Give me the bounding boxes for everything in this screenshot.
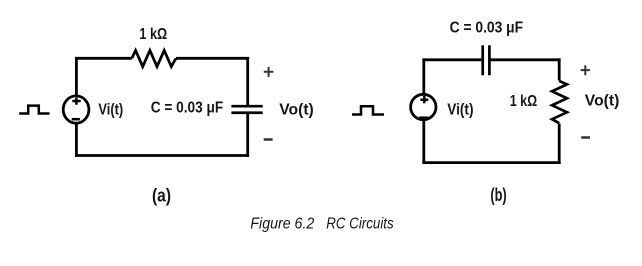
label C = 0.03 µF (b) <box>450 19 524 36</box>
wire (b) left branch upper: source to top rail <box>422 58 425 94</box>
output minus sign (a) <box>264 138 273 141</box>
svg-text:(b): (b) <box>490 185 506 205</box>
wire (b) right branch lower: resistor to bottom rail <box>558 124 561 165</box>
svg-text:Vo(t): Vo(t) <box>279 102 314 119</box>
output plus sign (a) <box>264 67 274 77</box>
label Vi(t) (b) <box>447 102 473 119</box>
label Vo(t) (a) <box>279 102 314 119</box>
svg-text:Vo(t): Vo(t) <box>585 93 620 110</box>
output minus sign (b) <box>581 136 590 139</box>
resistor 1 kΩ (a) zigzag <box>132 50 176 66</box>
svg-text:C = 0.03 μF: C = 0.03 μF <box>450 19 524 36</box>
capacitor C (b) right plate <box>488 45 491 75</box>
voltage source (a) minus polarity mark <box>72 118 80 121</box>
capacitor C (b) left plate <box>481 45 484 75</box>
svg-text:Vi(t): Vi(t) <box>447 102 473 119</box>
figure caption: Figure 6.2 RC Circuits <box>250 216 393 233</box>
svg-text:C = 0.03 μF: C = 0.03 μF <box>151 100 224 117</box>
wire (b) top rail right segment from capacitor <box>490 58 561 61</box>
wire (a) bottom rail <box>75 154 249 157</box>
wire (a) top rail left segment <box>75 57 132 60</box>
wire (b) bottom rail <box>422 161 560 164</box>
input pulse symbol (b) <box>352 106 384 114</box>
wire (b) top rail left segment to capacitor <box>422 58 481 61</box>
wire (a) right branch lower: capacitor to bottom rail <box>246 113 249 157</box>
svg-text:1 kΩ: 1 kΩ <box>139 26 167 43</box>
label Vo(t) (b) <box>585 93 620 110</box>
voltage source Vi(t) (a) circle <box>63 96 89 123</box>
sub-label (b) <box>490 185 506 205</box>
svg-text:Figure 6.2: Figure 6.2 <box>250 216 314 233</box>
label 1 kΩ (b) <box>510 93 538 110</box>
resistor 1 kΩ (b) vertical zigzag <box>552 81 567 123</box>
svg-text:Vi(t): Vi(t) <box>98 102 123 119</box>
input pulse symbol (a) <box>19 106 49 114</box>
capacitor C (a) top plate <box>231 105 262 108</box>
wire (a) left branch lower: source to bottom rail <box>75 123 78 157</box>
voltage source (b) minus polarity mark <box>419 116 428 119</box>
svg-text:1 kΩ: 1 kΩ <box>510 93 538 110</box>
wire (a) left branch upper: source to top rail <box>75 57 78 97</box>
label C = 0.03 µF (a) <box>151 100 224 117</box>
voltage source (b) plus polarity mark <box>420 96 428 103</box>
svg-text:(a): (a) <box>152 186 171 206</box>
wire (b) right branch upper: top rail to resistor <box>558 58 561 80</box>
wire (a) right branch upper: top rail to capacitor <box>246 57 249 106</box>
voltage source (a) plus polarity mark <box>72 98 80 105</box>
label Vi(t) (a) <box>98 102 123 119</box>
label 1 kΩ (a) <box>139 26 167 43</box>
wire (b) left branch lower: source to bottom rail <box>422 120 425 164</box>
sub-label (a) <box>152 186 171 206</box>
voltage source Vi(t) (b) circle <box>411 94 436 119</box>
output plus sign (b) <box>581 65 590 75</box>
wire (a) top rail right segment <box>176 57 249 60</box>
capacitor C (a) bottom plate <box>231 111 262 114</box>
svg-text:RC Circuits: RC Circuits <box>326 216 394 233</box>
